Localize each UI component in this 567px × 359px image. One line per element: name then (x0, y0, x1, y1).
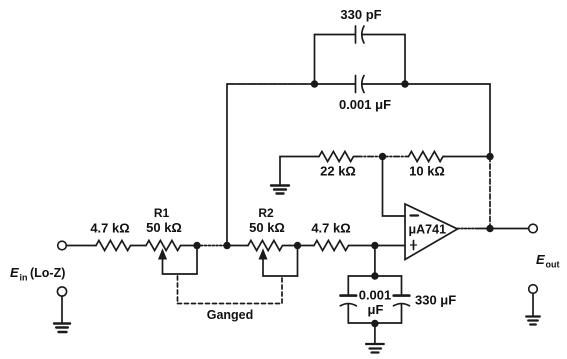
R1 wiper wire to node A (163, 246, 198, 275)
R2 wiper shaft (262, 257, 264, 276)
wire cap loop right vertical (404, 35, 406, 85)
R1 wiper arrow (158, 248, 167, 259)
wire cap ground stem (374, 324, 376, 345)
label Eout (536, 252, 560, 270)
svg-text:R2: R2 (258, 206, 274, 220)
ground cap box (366, 344, 384, 353)
node I (output junction) (486, 225, 493, 232)
wire top feedback horizontal left (dotted in scan) (227, 83, 315, 85)
gang dashed link horizontal (178, 303, 283, 305)
terminal output ground (open circle) (529, 285, 538, 294)
svg-text:μF: μF (368, 302, 384, 317)
terminal input (open circle) (58, 241, 67, 250)
capacitor C4 330 uF (394, 296, 410, 306)
svg-text:50 kΩ: 50 kΩ (249, 220, 285, 235)
node A (R1 wiper junction) (193, 242, 200, 249)
resistor R6 10 k (409, 152, 445, 162)
node H (right vertical at feedback line) (486, 153, 493, 160)
resistor R4 4.7 k (314, 241, 349, 251)
wire node C to R4 (298, 245, 315, 247)
wire cap box bottom (348, 322, 401, 324)
wire node D to op-amp plus input (375, 245, 405, 247)
wire node B vertical feedback riser (226, 84, 228, 246)
wire node B to R2 (227, 245, 248, 247)
label Ein (10, 265, 65, 283)
node D (noninverting input junction) (371, 242, 378, 249)
svg-text:10 kΩ: 10 kΩ (409, 164, 445, 179)
ground input (54, 324, 70, 333)
capacitor C1 330 pF (356, 26, 365, 43)
resistor R1 50 k pot (146, 241, 181, 251)
svg-text:E: E (10, 265, 19, 280)
op-amp minus sign (411, 214, 419, 216)
node F (cap loop right) (401, 80, 408, 87)
wire 22k ground corner (280, 157, 319, 186)
node J (cap box top) (371, 272, 378, 279)
terminal output (open circle) (529, 224, 538, 233)
wire output ground stem (532, 293, 534, 316)
wire cap box left lower (347, 304, 349, 323)
svg-text:330 μF: 330 μF (415, 293, 456, 308)
resistor R3 4.7 k (96, 241, 131, 251)
node C (R2 wiper junction) (294, 242, 301, 249)
op-amp U1 triangle (405, 204, 458, 260)
wire cap box right lower (401, 304, 403, 323)
wire node D to cap box (374, 246, 376, 277)
svg-text:R1: R1 (154, 206, 170, 220)
svg-text:0.001: 0.001 (359, 288, 392, 303)
wire op-amp output (dotted near apex in scan) (458, 228, 479, 230)
wire R3 to R1 (131, 245, 147, 247)
resistor R5 22 k (319, 152, 357, 162)
svg-text:μA741: μA741 (409, 223, 447, 237)
wire R1 to node A (181, 245, 198, 247)
wire cap box right upper (401, 276, 403, 295)
wire cap loop left vertical (314, 35, 316, 85)
wire right vertical upper (489, 84, 491, 157)
wire cap loop top left segment (315, 34, 356, 36)
wire main top line left of C2 (315, 83, 356, 85)
node E (cap loop left) (311, 80, 318, 87)
wire 22k to node G (dash-dot in scan) (357, 156, 383, 158)
svg-text:(Lo-Z): (Lo-Z) (30, 266, 65, 280)
gang dashed link right vertical (281, 278, 283, 304)
capacitor C3 0.001 uF (340, 296, 356, 306)
node G (inverting feedback junction) (379, 153, 386, 160)
wire cap box top (348, 275, 401, 277)
svg-text:4.7 kΩ: 4.7 kΩ (311, 221, 350, 236)
svg-text:in: in (20, 273, 28, 283)
wire main top line right of C2 (363, 83, 491, 85)
svg-text:out: out (546, 260, 560, 270)
R2 wiper wire to node C (263, 246, 298, 277)
wire right vertical lower (dashed in scan) (489, 157, 491, 229)
ground output (526, 317, 540, 325)
node B (feedback junction) (223, 242, 230, 249)
svg-text:0.001 μF: 0.001 μF (339, 97, 391, 112)
wire R4 to node D (349, 245, 375, 247)
wire inverting input riser (383, 157, 406, 217)
wire R2 to node C (290, 245, 298, 247)
terminal input ground (open circle) (57, 287, 66, 296)
wire output to terminal (490, 228, 529, 230)
svg-text:22 kΩ: 22 kΩ (320, 164, 356, 179)
wire input ground stem (61, 296, 63, 323)
wire input to R3 (67, 245, 97, 247)
svg-text:4.7 kΩ: 4.7 kΩ (90, 221, 129, 236)
gang dashed link left vertical (177, 276, 179, 304)
wire node A to node B (dotted in scan) (197, 245, 227, 247)
svg-text:50 kΩ: 50 kΩ (146, 220, 182, 235)
wire R6 to node H (445, 156, 491, 158)
wire node G to R6 (dash-dot in scan) (383, 156, 409, 158)
op-amp plus sign (411, 241, 417, 250)
svg-text:Ganged: Ganged (207, 308, 254, 322)
svg-text:330 pF: 330 pF (340, 7, 381, 22)
R2 wiper arrow (259, 248, 268, 259)
ground 22k (271, 186, 289, 194)
R1 wiper shaft (162, 257, 164, 274)
capacitor C2 0.001 uF (356, 76, 365, 93)
resistor R2 50 k pot (248, 241, 290, 251)
node K (cap box bottom) (371, 320, 378, 327)
wire cap loop top right segment (363, 34, 406, 36)
svg-text:E: E (536, 252, 545, 267)
wire cap box left upper (347, 276, 349, 295)
